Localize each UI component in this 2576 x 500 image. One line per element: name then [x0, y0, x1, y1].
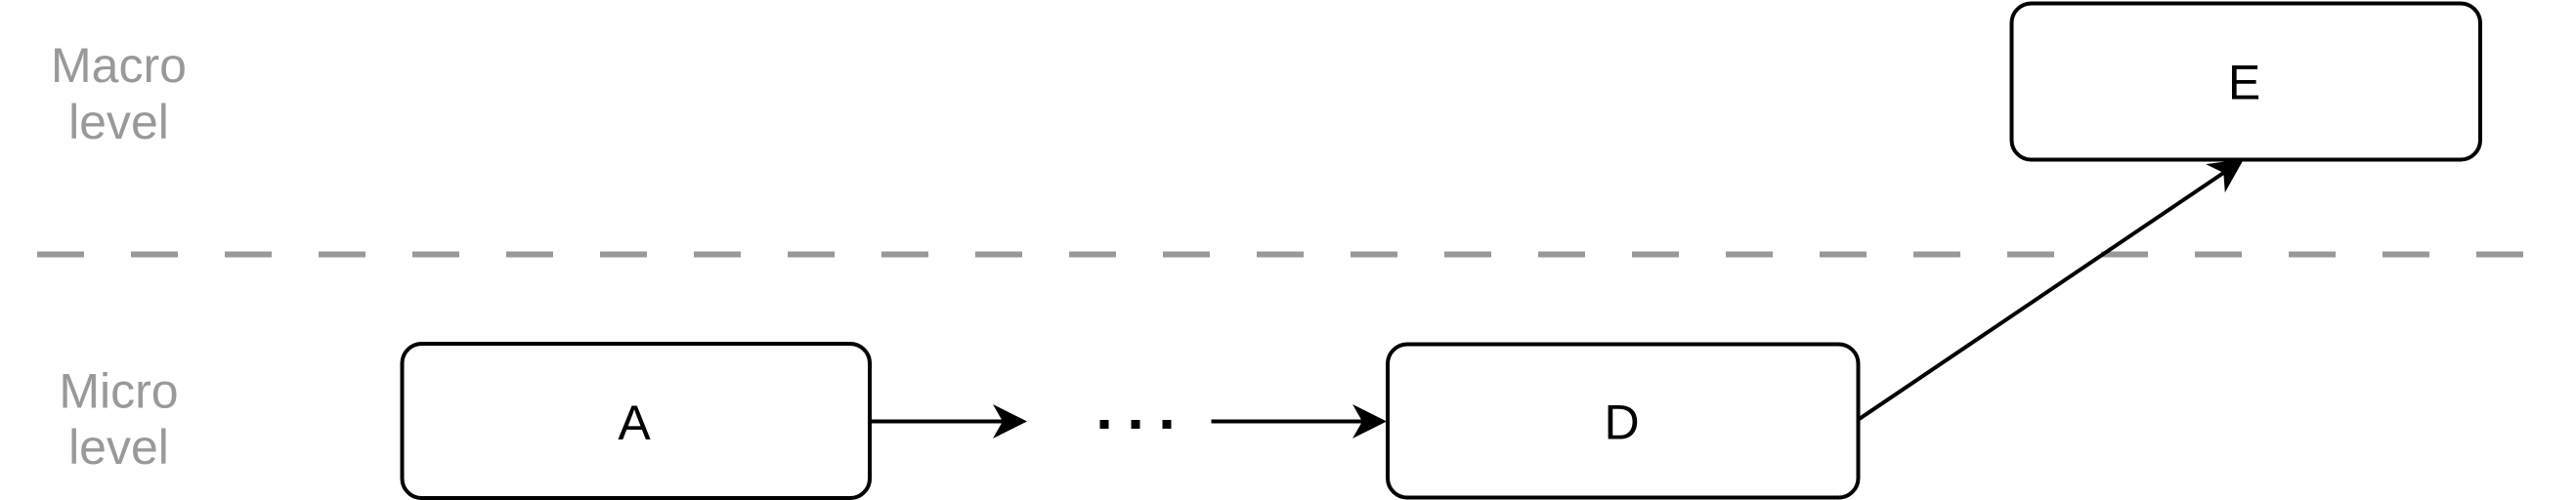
svg-text:Macro: Macro: [51, 38, 187, 93]
box E: [2012, 4, 2481, 160]
arrowhead A to dots: [993, 404, 1027, 438]
svg-text:level: level: [68, 95, 169, 149]
wire A to dots: [870, 420, 1005, 424]
svg-text:E: E: [2228, 56, 2260, 110]
dashed separator line between macro and micro levels: [37, 252, 2568, 258]
box A: [403, 344, 871, 498]
box D: [1388, 345, 1859, 498]
svg-text:Micro: Micro: [59, 364, 178, 419]
svg-text:level: level: [68, 420, 169, 475]
label Micro level: [59, 364, 178, 476]
node ellipsis dots: [1100, 420, 1172, 429]
wire D to E: [1859, 173, 2224, 420]
svg-text:A: A: [618, 396, 651, 450]
svg-text:D: D: [1604, 396, 1639, 450]
arrowhead dots to D: [1352, 404, 1387, 438]
arrowhead D to E: [2206, 159, 2244, 192]
wire dots to D: [1212, 420, 1365, 424]
label Macro level: [51, 38, 187, 149]
